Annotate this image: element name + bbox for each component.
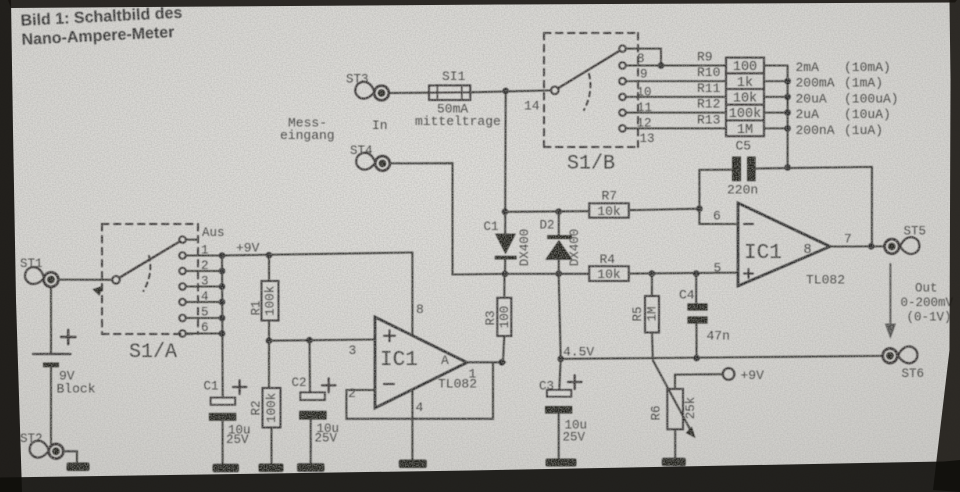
svg-text:R13: R13 bbox=[697, 112, 720, 127]
svg-text:D2: D2 bbox=[540, 219, 555, 233]
terminal ST1 bbox=[23, 265, 58, 287]
svg-text:47n: 47n bbox=[707, 329, 730, 344]
node R1 top bbox=[266, 252, 273, 259]
pin 6 wire bbox=[699, 209, 738, 224]
terminal ST3 bbox=[354, 80, 389, 100]
label Out 0-200mV (0-1V) bbox=[901, 282, 954, 325]
pin 4 to ground bbox=[411, 390, 413, 460]
svg-text:R12: R12 bbox=[697, 97, 720, 112]
svg-text:ST2: ST2 bbox=[20, 432, 43, 446]
svg-text:0-200mV: 0-200mV bbox=[901, 296, 954, 310]
output op-amp B to ST5 bbox=[830, 245, 885, 247]
wire D2 node down to 4.5V rail bbox=[559, 274, 561, 359]
svg-text:100k: 100k bbox=[263, 286, 277, 316]
svg-text:4: 4 bbox=[201, 290, 209, 304]
svg-text:8: 8 bbox=[416, 302, 424, 317]
svg-text:10k: 10k bbox=[597, 267, 621, 282]
svg-text:DX400: DX400 bbox=[518, 229, 532, 267]
potentiometer R6 body bbox=[667, 389, 683, 429]
ground below R2 bbox=[259, 464, 284, 473]
junction dots on bus bbox=[219, 252, 226, 259]
svg-text:1: 1 bbox=[201, 244, 209, 258]
svg-text:1k: 1k bbox=[737, 76, 753, 91]
svg-text:2: 2 bbox=[348, 386, 356, 401]
svg-text:2mA: 2mA bbox=[796, 60, 820, 75]
svg-text:8: 8 bbox=[637, 52, 645, 66]
svg-text:IC1: IC1 bbox=[744, 242, 782, 265]
svg-text:(10mA): (10mA) bbox=[844, 60, 891, 75]
svg-text:4.5V: 4.5V bbox=[563, 345, 594, 360]
ground below C1 bbox=[213, 464, 240, 473]
resistor ladder boxes R9 100 / R10 1k / R11 10k / R12 100k / R13 1M bbox=[726, 58, 764, 137]
op-amp U1A (IC1 A) bbox=[375, 317, 467, 408]
svg-text:A: A bbox=[441, 353, 449, 368]
svg-text:4: 4 bbox=[416, 400, 424, 415]
svg-text:100k: 100k bbox=[265, 393, 279, 423]
svg-text:S1/A: S1/A bbox=[129, 341, 177, 364]
S1/A contact 5 bbox=[179, 315, 186, 322]
svg-text:8: 8 bbox=[804, 243, 812, 258]
S1/A contact 3 bbox=[179, 283, 186, 290]
svg-text:(100uA): (100uA) bbox=[844, 91, 899, 106]
ground below R6 bbox=[662, 458, 686, 466]
wire node to op-amp pin 3 bbox=[269, 340, 375, 341]
switch S1/B pivot bbox=[551, 87, 559, 95]
ground at op-amp A pin 4 bbox=[399, 460, 427, 469]
terminal ST4 bbox=[355, 152, 390, 171]
svg-text:(10uA): (10uA) bbox=[844, 107, 891, 122]
photo dark border: left edge bbox=[0, 0, 22, 492]
photo dark border: bottom edge bbox=[0, 460, 960, 492]
switch S1/A dashed box bbox=[102, 224, 198, 334]
S1/B contact 13 bbox=[619, 125, 626, 132]
svg-text:2: 2 bbox=[201, 259, 209, 273]
S1/A contact Aus bbox=[179, 236, 186, 243]
svg-text:200mA: 200mA bbox=[796, 76, 835, 91]
resistor R4 10k row bbox=[505, 273, 589, 275]
svg-text:200nA: 200nA bbox=[796, 123, 835, 138]
battery BAT 9V Block bbox=[33, 330, 96, 397]
svg-text:10k: 10k bbox=[597, 204, 621, 219]
op-amp U1B (IC1 B) bbox=[738, 203, 830, 286]
svg-text:TL082: TL082 bbox=[806, 273, 845, 288]
svg-text:In: In bbox=[372, 118, 388, 133]
switch S1/B arm bbox=[558, 51, 619, 88]
svg-text:+9V: +9V bbox=[741, 368, 765, 383]
svg-text:R11: R11 bbox=[697, 81, 721, 96]
ladder output wires to bus bbox=[764, 66, 788, 129]
svg-text:100k: 100k bbox=[729, 107, 761, 122]
svg-text:Out: Out bbox=[915, 282, 938, 296]
dashed travel arc S1/A bbox=[144, 256, 151, 291]
S1/B contact 12 bbox=[619, 109, 626, 116]
wire R1 to node 3 and R2 bbox=[268, 321, 270, 389]
svg-text:14: 14 bbox=[524, 99, 540, 114]
svg-text:mitteltrage: mitteltrage bbox=[415, 114, 501, 129]
svg-text:R2: R2 bbox=[249, 400, 263, 415]
svg-text:3: 3 bbox=[201, 275, 209, 289]
+9V rail bbox=[222, 253, 412, 256]
switch S1/A arm bbox=[120, 241, 181, 277]
wire ST1 down to battery bbox=[50, 287, 52, 353]
svg-text:SI1: SI1 bbox=[442, 69, 466, 84]
ground at ST2 bbox=[67, 463, 90, 472]
wire ST2 to ground bbox=[63, 451, 77, 462]
svg-text:25V: 25V bbox=[563, 431, 586, 445]
svg-text:DX400: DX400 bbox=[568, 229, 582, 267]
svg-text:C5: C5 bbox=[736, 139, 752, 154]
range labels bbox=[796, 60, 899, 138]
S1/B contact 10 bbox=[619, 78, 626, 85]
svg-text:25V: 25V bbox=[315, 431, 338, 445]
svg-text:25k: 25k bbox=[684, 397, 698, 420]
wire fuse to S1/B pivot bbox=[470, 90, 551, 92]
svg-text:(0-1V): (0-1V) bbox=[907, 311, 952, 325]
svg-text:13: 13 bbox=[640, 132, 655, 146]
photo dark border: right edge bbox=[933, 0, 960, 492]
ground below C2 bbox=[297, 463, 325, 472]
S1/A contact 4 bbox=[179, 299, 186, 306]
terminal ST5 bbox=[885, 237, 920, 255]
out arrow ST5 to ST6 bbox=[889, 264, 891, 327]
S1/B contact 11 bbox=[619, 94, 626, 101]
svg-text:25V: 25V bbox=[226, 433, 249, 447]
wire R6 bottom to ground bbox=[674, 429, 676, 458]
wire node to D1/R7 bbox=[504, 91, 507, 212]
svg-text:R6: R6 bbox=[649, 405, 663, 420]
svg-text:R1: R1 bbox=[249, 300, 263, 315]
svg-text:6: 6 bbox=[201, 321, 209, 335]
pin 8 riser from +9V rail bbox=[411, 253, 413, 336]
svg-text:Aus: Aus bbox=[202, 226, 225, 240]
svg-text:R5: R5 bbox=[631, 306, 645, 321]
svg-text:9: 9 bbox=[640, 68, 648, 82]
svg-text:ST3: ST3 bbox=[346, 73, 369, 87]
svg-text:100: 100 bbox=[733, 60, 757, 75]
svg-text:20uA: 20uA bbox=[796, 91, 827, 106]
svg-text:100: 100 bbox=[498, 306, 512, 329]
wire battery to ST2 bbox=[50, 367, 52, 444]
svg-text:6: 6 bbox=[713, 209, 721, 224]
ground below C3 bbox=[546, 459, 577, 467]
svg-text:C1: C1 bbox=[204, 380, 219, 394]
svg-text:+9V: +9V bbox=[236, 241, 260, 256]
wire ST1 to S1/A pivot bbox=[59, 279, 113, 281]
svg-text:ST4: ST4 bbox=[350, 144, 373, 158]
svg-text:S1/B: S1/B bbox=[567, 153, 615, 176]
svg-text:C1: C1 bbox=[484, 220, 499, 234]
svg-text:2uA: 2uA bbox=[796, 107, 820, 122]
svg-text:7: 7 bbox=[844, 232, 852, 247]
title caption bbox=[20, 5, 184, 49]
resistor R7 10k row bbox=[505, 210, 589, 213]
bus from S1/A contacts down to C1 bbox=[221, 256, 224, 398]
svg-text:C2: C2 bbox=[292, 376, 307, 390]
svg-text:R3: R3 bbox=[484, 310, 498, 325]
potentiometer R6 25k wiper to rail bbox=[653, 361, 691, 432]
resistor R1 100k bbox=[262, 281, 279, 321]
feedback to C5 bbox=[699, 170, 732, 209]
wire ST3 to fuse bbox=[390, 92, 430, 94]
wire R6 top to +9V bubble bbox=[675, 374, 723, 389]
svg-text:R7: R7 bbox=[602, 189, 618, 204]
output bus down to C5 wire bbox=[787, 66, 789, 168]
+9V bubble terminal bbox=[723, 368, 735, 380]
S1/A contact 6 bbox=[179, 330, 186, 337]
svg-text:R4: R4 bbox=[600, 252, 616, 267]
svg-text:eingang: eingang bbox=[280, 128, 335, 143]
svg-text:R10: R10 bbox=[697, 65, 720, 80]
resistor R3 100 bbox=[497, 298, 511, 336]
svg-text:IC1: IC1 bbox=[380, 349, 418, 372]
svg-text:ST1: ST1 bbox=[20, 257, 43, 271]
resistor R5 1M bbox=[651, 274, 653, 296]
svg-text:1M: 1M bbox=[737, 123, 753, 138]
svg-text:3: 3 bbox=[349, 343, 357, 358]
S1/A contact 1 bbox=[179, 252, 186, 259]
photo dark border: top edge bbox=[8, 0, 957, 8]
node at top of D1 branch bbox=[502, 88, 509, 95]
resistor R2 100k bbox=[263, 388, 281, 428]
dashed travel arc S1/B bbox=[584, 74, 590, 110]
svg-text:1: 1 bbox=[469, 367, 477, 382]
svg-text:ST5: ST5 bbox=[904, 225, 927, 239]
svg-text:5: 5 bbox=[714, 261, 722, 276]
svg-text:1M: 1M bbox=[646, 306, 660, 321]
S1/B contact 9 bbox=[619, 62, 626, 69]
svg-text:R9: R9 bbox=[697, 50, 713, 65]
wire C5 to feedback right leg bbox=[756, 167, 872, 246]
switch S1/A pivot bbox=[112, 276, 120, 284]
svg-text:220n: 220n bbox=[727, 183, 758, 198]
arrow mark on ST1 wire bbox=[93, 286, 104, 296]
wire ST4 down to diode row bbox=[390, 163, 505, 274]
output wire op-amp A bbox=[467, 361, 505, 363]
svg-text:C4: C4 bbox=[679, 288, 695, 303]
switch S1/B dashed box bbox=[544, 33, 638, 147]
svg-text:10k: 10k bbox=[733, 92, 757, 107]
svg-text:ST6: ST6 bbox=[902, 367, 925, 381]
svg-text:5: 5 bbox=[201, 306, 209, 320]
S1/A contact 2 bbox=[179, 268, 186, 275]
svg-text:(1uA): (1uA) bbox=[844, 123, 883, 138]
4.5V rail to ST6 bbox=[561, 356, 883, 359]
S1/B top contact 8 bbox=[619, 45, 626, 52]
feedback wire pin 2 loop bbox=[346, 362, 493, 419]
svg-text:(1mA): (1mA) bbox=[844, 76, 883, 91]
terminal ST6 bbox=[883, 346, 918, 364]
terminal ST2 bbox=[29, 440, 64, 459]
svg-text:Block: Block bbox=[57, 382, 96, 397]
